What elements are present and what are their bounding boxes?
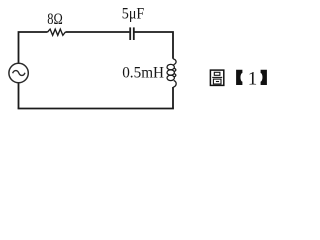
svg-text:5μF: 5μF: [122, 5, 145, 22]
capacitor C1 plate right: [133, 27, 135, 40]
圖 middle bar: [212, 76, 222, 78]
inductor L1 coil loop 2: [167, 70, 174, 75]
圖 bottom 回 inner: [216, 81, 219, 83]
inductor L1 coil loop 3: [167, 75, 174, 80]
inductor L1 exit hook: [173, 81, 176, 88]
right lenticular bracket 】: [261, 70, 267, 85]
inductor L1 coil loop 1: [167, 64, 174, 69]
inductor L1 entry hook: [173, 59, 176, 65]
inductor L1 right connector 1: [174, 68, 176, 71]
圖 bottom 回 outer: [213, 79, 221, 84]
wire: resistor to capacitor: [65, 31, 129, 33]
svg-text:8Ω: 8Ω: [47, 11, 63, 28]
figure caption character 圖 (drawn) : outer box: [210, 70, 223, 85]
圖 inner top 口: [214, 72, 220, 75]
wire: bottom-left (corner up to source bottom): [18, 82, 20, 109]
svg-text:0.5mH: 0.5mH: [122, 65, 164, 82]
AC source V1 sine wave: [13, 71, 25, 76]
wire: inductor to bottom-right corner: [172, 87, 174, 109]
capacitor C1 plate left: [129, 27, 131, 40]
left lenticular bracket 【: [236, 70, 242, 85]
resistor R1 (8 ohm) zigzag: [48, 29, 66, 35]
wire: top-left (source top to top-left corner to resistor): [19, 32, 48, 63]
wire: capacitor to top-right corner down to inductor: [134, 32, 173, 59]
AC source V1 circle: [9, 63, 28, 82]
inductor L1 right connector 2: [174, 74, 176, 77]
svg-text:1: 1: [248, 68, 258, 89]
wire: bottom: [18, 108, 174, 110]
